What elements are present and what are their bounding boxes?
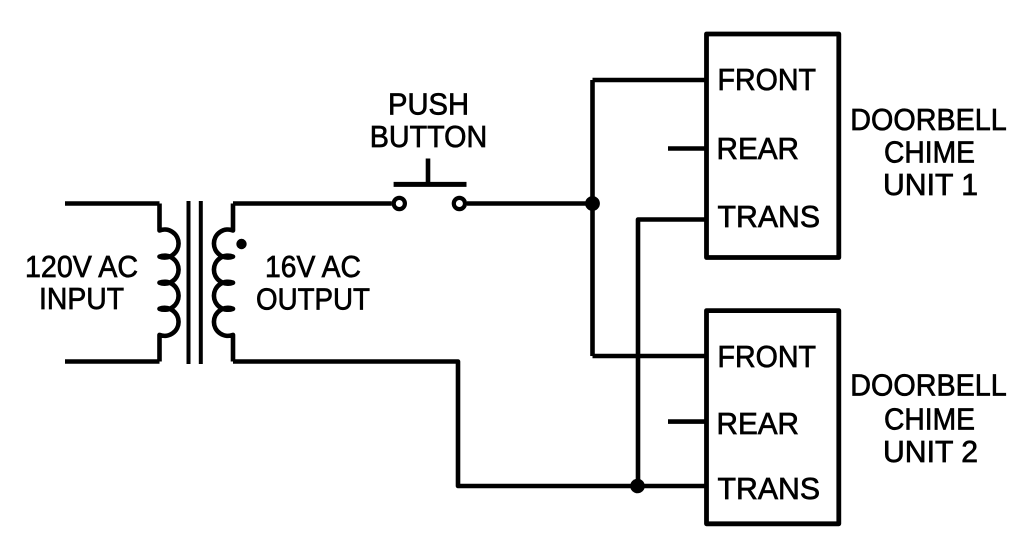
svg-text:FRONT: FRONT bbox=[718, 340, 817, 374]
push button SW1 left contact bbox=[394, 198, 405, 209]
svg-text:DOORBELL: DOORBELL bbox=[850, 103, 1007, 137]
label: DOORBELL CHIME UNIT 2 bbox=[850, 369, 1007, 470]
chime unit 1 box bbox=[707, 34, 839, 258]
push button SW1 actuator bar bbox=[394, 182, 467, 187]
wire: transformer primary bottom lead bbox=[65, 359, 160, 364]
wire: chime 1 REAR terminal stub bbox=[668, 146, 706, 151]
label: 120V AC INPUT bbox=[25, 250, 138, 316]
svg-text:REAR: REAR bbox=[717, 407, 800, 441]
push button SW1 right contact bbox=[454, 198, 465, 209]
label: DOORBELL CHIME UNIT 1 bbox=[850, 103, 1007, 202]
transformer T1 core line right bbox=[199, 201, 203, 364]
transformer phase dot bbox=[236, 239, 246, 249]
transformer T1 primary winding bbox=[160, 204, 179, 362]
wire: secondary top lead to push button bbox=[233, 201, 392, 206]
wire: chime 1 TRANS terminal down to junction B bbox=[638, 220, 706, 487]
svg-text:TRANS: TRANS bbox=[718, 472, 821, 506]
junction A dot bbox=[585, 196, 600, 211]
svg-text:CHIME: CHIME bbox=[884, 403, 975, 437]
svg-text:TRANS: TRANS bbox=[718, 200, 821, 234]
wire: chime 2 REAR terminal stub bbox=[668, 419, 706, 424]
svg-text:UNIT 2: UNIT 2 bbox=[883, 435, 978, 469]
svg-text:CHIME: CHIME bbox=[884, 136, 975, 170]
wire: transformer primary top lead bbox=[65, 201, 160, 206]
svg-text:120V AC: 120V AC bbox=[25, 250, 138, 284]
svg-text:REAR: REAR bbox=[717, 132, 800, 166]
wire: branch to chime 1 FRONT terminal bbox=[593, 78, 707, 83]
svg-text:OUTPUT: OUTPUT bbox=[256, 283, 370, 317]
svg-text:BUTTON: BUTTON bbox=[370, 120, 488, 154]
wire: vertical branch through junction A bbox=[590, 80, 595, 356]
transformer T1 core line left bbox=[187, 201, 191, 364]
chime unit 2 box bbox=[707, 311, 839, 524]
label: 16V AC OUTPUT bbox=[256, 250, 370, 317]
push button SW1 actuator stem bbox=[426, 159, 431, 185]
svg-text:16V AC: 16V AC bbox=[265, 250, 361, 284]
svg-text:UNIT 1: UNIT 1 bbox=[883, 168, 978, 202]
svg-text:PUSH: PUSH bbox=[388, 88, 469, 122]
wire: secondary bottom lead to chime 2 TRANS bbox=[233, 362, 706, 487]
transformer T1 secondary winding bbox=[214, 204, 233, 362]
wire: push button to junction A bbox=[467, 201, 593, 206]
svg-text:FRONT: FRONT bbox=[718, 63, 817, 97]
label: PUSH BUTTON bbox=[370, 88, 488, 155]
svg-text:DOORBELL: DOORBELL bbox=[850, 369, 1007, 403]
wire: branch to chime 2 FRONT terminal bbox=[593, 354, 707, 359]
junction B dot bbox=[630, 479, 645, 494]
svg-text:INPUT: INPUT bbox=[39, 282, 124, 316]
